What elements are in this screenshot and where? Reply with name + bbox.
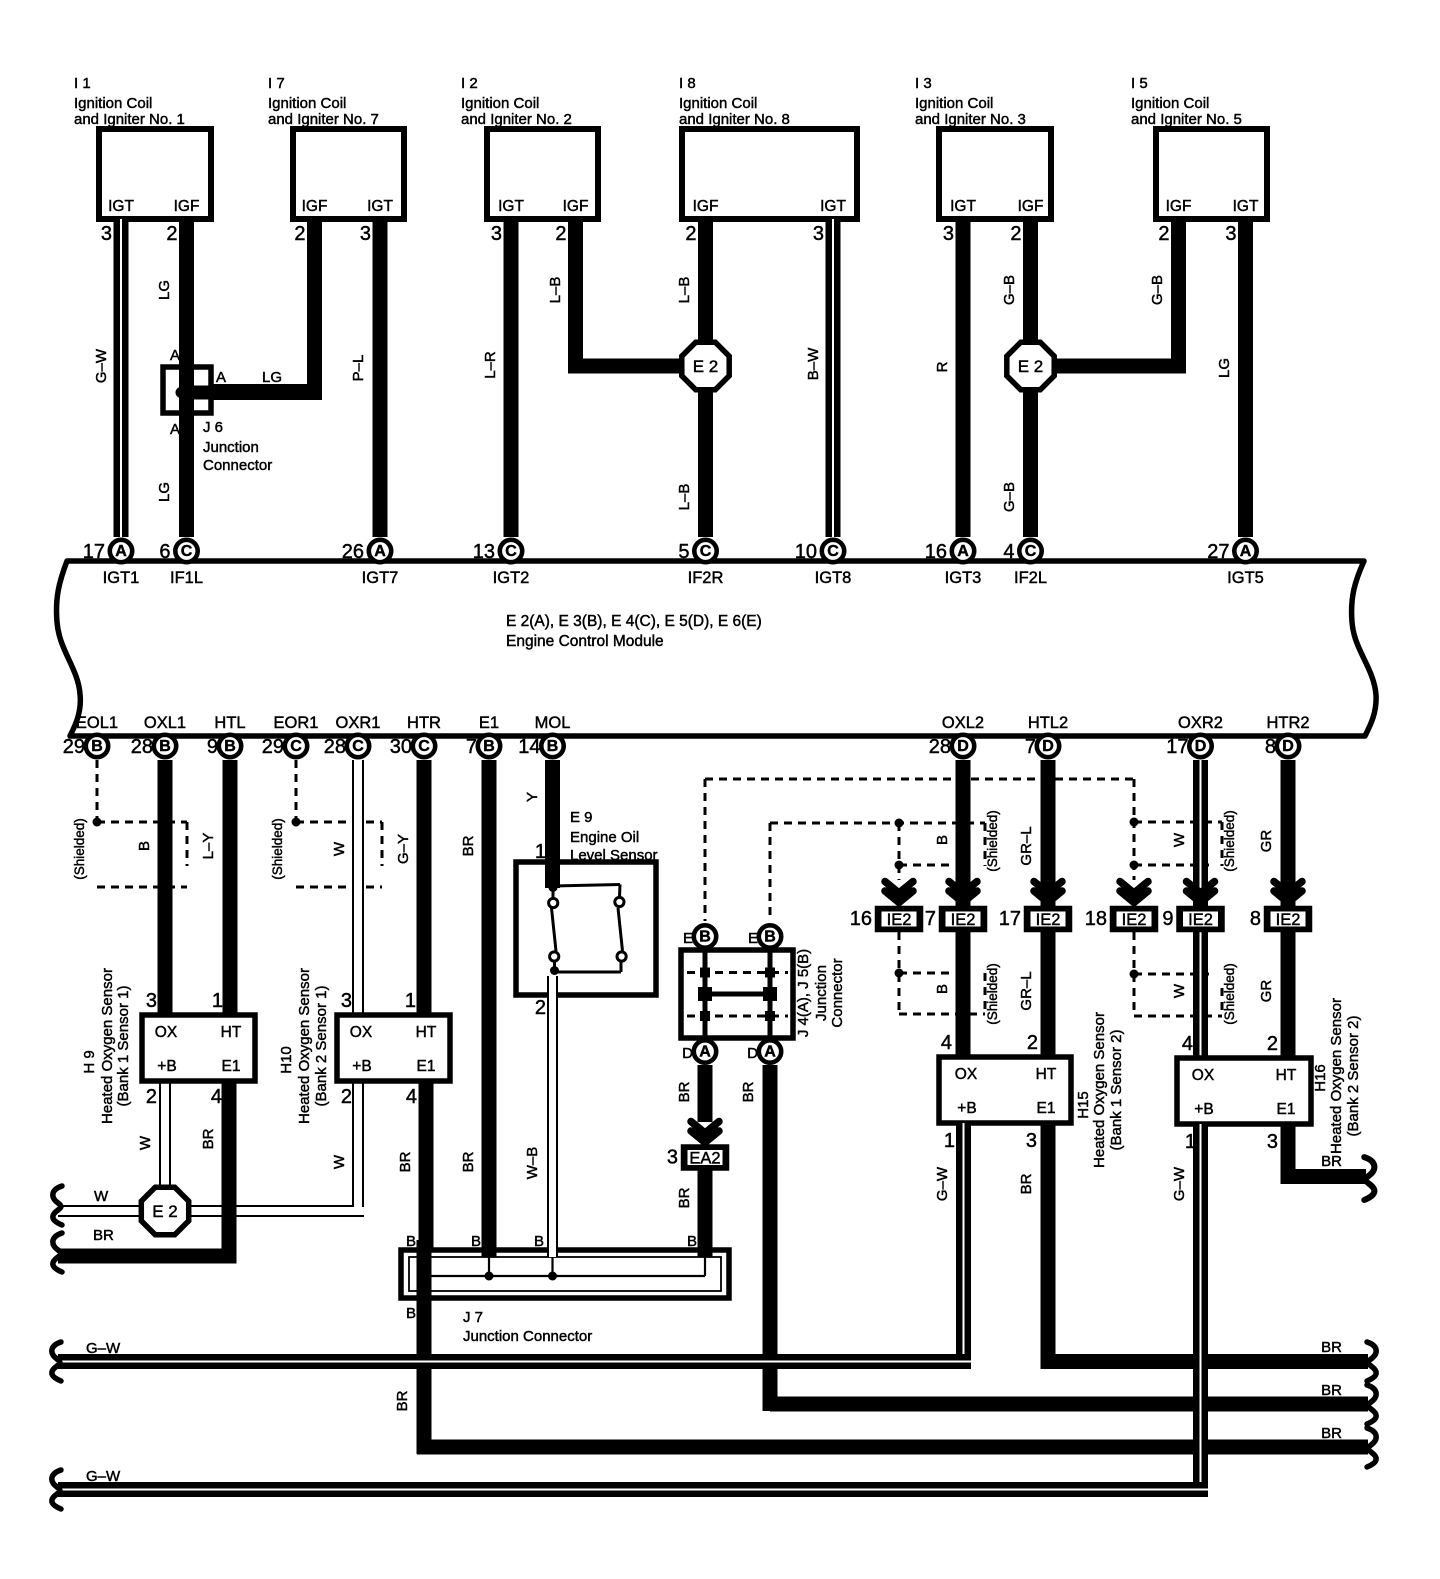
svg-text:I 7: I 7 bbox=[268, 75, 285, 92]
svg-text:IGF: IGF bbox=[693, 198, 719, 215]
svg-text:BR: BR bbox=[397, 1151, 414, 1172]
wire IGT1 G-W (I1 pin3 to ECM 17A) bbox=[93, 219, 129, 537]
ignition coil I7 (No. 7) bbox=[268, 75, 404, 245]
svg-text:2: 2 bbox=[294, 223, 305, 245]
svg-text:A: A bbox=[115, 543, 127, 560]
wire H16 +B G-W down to bottom harness bbox=[1171, 1124, 1208, 1497]
svg-text:G–W: G–W bbox=[86, 1340, 121, 1357]
svg-text:G–B: G–B bbox=[1001, 482, 1018, 512]
wire IGT5 LG (I5 pin3 to ECM 27A) bbox=[1216, 219, 1253, 537]
svg-text:LG: LG bbox=[1216, 358, 1233, 378]
svg-text:29: 29 bbox=[63, 736, 85, 758]
svg-text:IGT: IGT bbox=[950, 198, 976, 215]
svg-text:IF2L: IF2L bbox=[1014, 569, 1047, 587]
svg-text:MOL: MOL bbox=[535, 714, 571, 732]
svg-text:8: 8 bbox=[1265, 736, 1276, 758]
svg-text:3: 3 bbox=[491, 223, 502, 245]
svg-text:(Shielded): (Shielded) bbox=[985, 963, 1000, 1025]
svg-text:GR: GR bbox=[1258, 980, 1275, 1003]
wire W ground link through E2 octagon bbox=[58, 1081, 364, 1217]
svg-text:A: A bbox=[170, 421, 180, 438]
svg-text:3: 3 bbox=[1026, 1130, 1037, 1152]
wire HTR G-Y (ECM 30C to H10 HT) bbox=[395, 760, 432, 1016]
heated oxygen sensor H15 (Bank 1 Sensor 2) bbox=[939, 1012, 1125, 1168]
svg-text:B: B bbox=[159, 738, 171, 755]
svg-text:1: 1 bbox=[944, 1130, 955, 1152]
svg-text:Engine Oil: Engine Oil bbox=[570, 829, 639, 846]
junction connector J6 bbox=[163, 347, 272, 474]
svg-text:B: B bbox=[471, 1233, 481, 1250]
engine oil level sensor E9 bbox=[516, 809, 658, 995]
svg-text:(Shielded): (Shielded) bbox=[1222, 810, 1237, 872]
svg-text:3: 3 bbox=[341, 990, 352, 1012]
svg-text:H 9: H 9 bbox=[81, 1050, 98, 1073]
svg-text:18: 18 bbox=[1085, 908, 1107, 930]
svg-text:B: B bbox=[91, 738, 103, 755]
svg-text:Ignition Coil: Ignition Coil bbox=[1131, 95, 1209, 112]
svg-text:D: D bbox=[1042, 738, 1054, 755]
svg-text:D: D bbox=[1195, 738, 1207, 755]
svg-text:IE2: IE2 bbox=[1188, 911, 1213, 929]
svg-text:BR: BR bbox=[200, 1128, 217, 1149]
svg-text:2: 2 bbox=[166, 223, 177, 245]
ECM pin 6(C) IF1L bbox=[159, 540, 203, 587]
svg-text:IGT: IGT bbox=[498, 198, 524, 215]
svg-text:B: B bbox=[547, 738, 559, 755]
svg-text:B: B bbox=[934, 835, 951, 845]
shield box below 16 IE2 (Shielded) bbox=[895, 932, 1001, 1025]
svg-text:(Bank 2 Sensor 2): (Bank 2 Sensor 2) bbox=[1345, 1016, 1362, 1137]
svg-text:W: W bbox=[1171, 832, 1188, 847]
svg-text:HTR: HTR bbox=[407, 714, 441, 732]
ground point E2 (bottom) bbox=[141, 1187, 188, 1234]
wire H15 +B G-W to left harness bbox=[934, 1123, 971, 1369]
svg-text:E 9: E 9 bbox=[570, 809, 593, 826]
wire HTR BR through J7 to bottom harness bbox=[394, 1233, 1368, 1455]
svg-text:B: B bbox=[136, 841, 153, 851]
svg-text:26: 26 bbox=[342, 541, 364, 563]
svg-text:L–R: L–R bbox=[482, 351, 499, 379]
wire E9 pin2 W-B to J7 bbox=[524, 976, 558, 1257]
ECM pin 17(A) IGT1 bbox=[83, 540, 140, 587]
ECM pin 29(C) EOR1 bbox=[262, 714, 319, 758]
svg-text:I 1: I 1 bbox=[74, 75, 91, 92]
svg-text:A: A bbox=[764, 1044, 776, 1061]
svg-text:J 6: J 6 bbox=[203, 419, 223, 436]
svg-text:C: C bbox=[290, 738, 302, 755]
cut-wire brace BR left bbox=[53, 1233, 62, 1272]
ground connector IE2 pin 16 bbox=[850, 908, 921, 930]
heated oxygen sensor H10 (Bank 2 Sensor 1) bbox=[278, 968, 450, 1124]
svg-text:3: 3 bbox=[1225, 223, 1236, 245]
svg-text:2: 2 bbox=[535, 997, 546, 1019]
svg-text:OX: OX bbox=[1192, 1067, 1215, 1084]
svg-text:IF1L: IF1L bbox=[170, 569, 203, 587]
ground point E2 (right) bbox=[1007, 342, 1054, 389]
svg-text:2: 2 bbox=[685, 223, 696, 245]
svg-text:HT: HT bbox=[1036, 1066, 1057, 1083]
svg-text:GR: GR bbox=[1258, 830, 1275, 853]
svg-text:Ignition Coil: Ignition Coil bbox=[74, 95, 152, 112]
svg-text:EOL1: EOL1 bbox=[76, 714, 118, 732]
svg-text:IGT8: IGT8 bbox=[815, 569, 852, 587]
svg-text:BR: BR bbox=[1321, 1425, 1342, 1442]
svg-text:G–Y: G–Y bbox=[395, 834, 412, 864]
wire G-W harness line (left, upper) bbox=[58, 1340, 971, 1369]
svg-text:BR: BR bbox=[460, 1151, 477, 1172]
wire HTR2 GR (ECM 8D to H16 HT) bbox=[1258, 760, 1296, 1058]
svg-text:(Bank 1 Sensor 2): (Bank 1 Sensor 2) bbox=[1108, 1030, 1125, 1151]
svg-text:BR: BR bbox=[93, 1227, 114, 1244]
svg-text:IE2: IE2 bbox=[951, 911, 976, 929]
svg-text:Ignition Coil: Ignition Coil bbox=[679, 95, 757, 112]
wire IF2R L-B (E2 node to ECM 5C) bbox=[676, 366, 713, 537]
svg-text:3: 3 bbox=[101, 223, 112, 245]
svg-text:HT: HT bbox=[416, 1024, 437, 1041]
svg-text:and Igniter No. 5: and Igniter No. 5 bbox=[1131, 111, 1242, 128]
svg-text:17: 17 bbox=[83, 541, 105, 563]
wire IGT2 L-R (I2 pin3 to ECM 13C) bbox=[482, 219, 519, 537]
svg-text:OXL2: OXL2 bbox=[942, 714, 984, 732]
svg-text:A: A bbox=[216, 369, 226, 386]
svg-text:4: 4 bbox=[406, 1086, 417, 1108]
svg-text:IF2R: IF2R bbox=[688, 569, 724, 587]
wire OXL2 B (ECM 28D to H15 OX) bbox=[934, 760, 971, 1057]
wire E1 BR into J7 bbox=[471, 1233, 497, 1281]
wire I2 IGF L-B to ground E2 bbox=[547, 219, 706, 374]
wire OXR1 W (ECM 28C to H10 OX) bbox=[331, 760, 364, 1016]
svg-text:+B: +B bbox=[957, 1100, 976, 1117]
svg-text:BR: BR bbox=[676, 1187, 693, 1208]
svg-text:Connector: Connector bbox=[203, 457, 272, 474]
ECM pin 28(D) OXL2 bbox=[929, 714, 984, 758]
ECM pin 29(B) EOL1 bbox=[63, 714, 118, 758]
junction connector J7 bbox=[401, 1250, 729, 1298]
svg-text:8: 8 bbox=[1250, 908, 1261, 930]
svg-text:Engine Control Module: Engine Control Module bbox=[506, 633, 664, 650]
svg-text:(Shielded): (Shielded) bbox=[270, 818, 285, 880]
svg-text:3: 3 bbox=[1267, 1131, 1278, 1153]
svg-text:(Bank 1 Sensor 1): (Bank 1 Sensor 1) bbox=[115, 986, 132, 1107]
svg-text:IGT: IGT bbox=[367, 198, 393, 215]
wire I3 IGF G-B to ground E2 bbox=[1001, 219, 1038, 366]
svg-text:4: 4 bbox=[1003, 541, 1014, 563]
ECM pin 5(C) IF2R bbox=[678, 540, 723, 587]
svg-text:Connector: Connector bbox=[829, 958, 846, 1027]
svg-text:A: A bbox=[957, 543, 969, 560]
svg-text:Junction: Junction bbox=[203, 439, 259, 456]
svg-text:B: B bbox=[406, 1233, 416, 1250]
svg-text:A: A bbox=[374, 543, 386, 560]
svg-text:LG: LG bbox=[262, 369, 282, 386]
wire H10 E1 BR to J7 bbox=[397, 1081, 434, 1257]
svg-text:Ignition Coil: Ignition Coil bbox=[268, 95, 346, 112]
svg-text:H10: H10 bbox=[278, 1046, 295, 1074]
svg-text:Heated Oxygen Sensor: Heated Oxygen Sensor bbox=[296, 968, 313, 1124]
wire E1 BR (ECM 7B to J7) bbox=[460, 760, 497, 1257]
ground connector IE2 pin 18 bbox=[1085, 908, 1156, 930]
svg-text:17: 17 bbox=[999, 908, 1021, 930]
shield box below 18 IE2 (Shielded) bbox=[1130, 932, 1238, 1025]
wire OXR2 W (ECM 17D to H16 OX) bbox=[1171, 760, 1208, 1058]
svg-text:E 2: E 2 bbox=[1018, 357, 1044, 376]
svg-text:E 2: E 2 bbox=[693, 357, 719, 376]
svg-text:and Igniter No. 1: and Igniter No. 1 bbox=[74, 111, 185, 128]
svg-text:9: 9 bbox=[207, 736, 218, 758]
wire OXL1 B (ECM 28B to H9 OX) bbox=[136, 760, 173, 1016]
svg-text:Ignition Coil: Ignition Coil bbox=[461, 95, 539, 112]
svg-text:J 4(A), J 5(B): J 4(A), J 5(B) bbox=[795, 949, 812, 1037]
svg-text:Heated Oxygen Sensor: Heated Oxygen Sensor bbox=[1091, 1012, 1108, 1168]
ignition coil I2 (No. 2) bbox=[461, 75, 598, 245]
svg-text:BR: BR bbox=[1321, 1339, 1342, 1356]
svg-text:B: B bbox=[764, 929, 776, 946]
arrow into IE2 (8) bbox=[1274, 882, 1302, 903]
svg-text:17: 17 bbox=[1166, 736, 1188, 758]
svg-text:OXR1: OXR1 bbox=[336, 714, 381, 732]
svg-text:1: 1 bbox=[405, 990, 416, 1012]
svg-text:Ignition Coil: Ignition Coil bbox=[915, 95, 993, 112]
svg-text:3: 3 bbox=[813, 223, 824, 245]
terminal D(A) left on J4/J5 bbox=[682, 1040, 716, 1062]
ignition coil I5 (No. 5) bbox=[1131, 75, 1267, 245]
svg-text:B: B bbox=[934, 984, 951, 994]
svg-text:D: D bbox=[957, 738, 969, 755]
svg-text:2: 2 bbox=[1010, 223, 1021, 245]
svg-text:B: B bbox=[406, 1305, 416, 1322]
svg-text:I 8: I 8 bbox=[679, 75, 696, 92]
svg-text:+B: +B bbox=[352, 1058, 371, 1075]
svg-text:H15: H15 bbox=[1075, 1091, 1092, 1119]
svg-text:2: 2 bbox=[1267, 1033, 1278, 1055]
ECM pin 30(C) HTR bbox=[390, 714, 441, 758]
svg-text:IGT2: IGT2 bbox=[493, 569, 530, 587]
svg-text:W: W bbox=[331, 1154, 348, 1169]
wire H15 E1 BR to right harness bbox=[1018, 1123, 1368, 1369]
wire W-B into J7 bbox=[534, 1233, 558, 1281]
cut-wire brace BR right (line 2) bbox=[1367, 1385, 1376, 1424]
svg-text:IE2: IE2 bbox=[887, 911, 912, 929]
svg-text:2: 2 bbox=[1158, 223, 1169, 245]
ground connector IE2 pin 7 bbox=[925, 908, 985, 930]
ECM pin 4(C) IF2L bbox=[1003, 540, 1047, 587]
terminal E(B) left on J4/J5 bbox=[683, 925, 716, 947]
svg-text:7: 7 bbox=[1025, 736, 1036, 758]
svg-text:OX: OX bbox=[955, 1066, 978, 1083]
svg-text:W: W bbox=[94, 1188, 109, 1205]
svg-text:A: A bbox=[1240, 543, 1252, 560]
ECM pin 9(B) HTL bbox=[207, 714, 246, 758]
svg-text:HT: HT bbox=[1276, 1067, 1297, 1084]
svg-text:7: 7 bbox=[466, 736, 477, 758]
svg-text:30: 30 bbox=[390, 736, 412, 758]
svg-text:16: 16 bbox=[850, 908, 872, 930]
ignition coil I8 (No. 8) bbox=[679, 75, 857, 245]
dashed shield bus line 2 (J5 E(B) to 16 IE2 and OXL2 shield) bbox=[770, 819, 985, 922]
svg-text:(Shielded): (Shielded) bbox=[72, 818, 87, 880]
svg-text:EA2: EA2 bbox=[689, 1150, 720, 1168]
svg-text:+B: +B bbox=[157, 1058, 176, 1075]
svg-text:Heated Oxygen Sensor: Heated Oxygen Sensor bbox=[99, 968, 116, 1124]
svg-text:C: C bbox=[1025, 543, 1037, 560]
svg-text:29: 29 bbox=[262, 736, 284, 758]
svg-text:9: 9 bbox=[1162, 908, 1173, 930]
svg-text:B: B bbox=[699, 929, 711, 946]
svg-text:7: 7 bbox=[925, 908, 936, 930]
svg-text:BR: BR bbox=[394, 1390, 411, 1411]
svg-text:+B: +B bbox=[1194, 1101, 1213, 1118]
wire IF2L G-B (E2 node to ECM 4C) bbox=[1001, 366, 1038, 537]
svg-text:GR–L: GR–L bbox=[1018, 971, 1035, 1010]
wire HTL2 GR-L (ECM 7D to H15 HT) bbox=[1018, 760, 1056, 1057]
wire EA2 BR into J7 bbox=[687, 1233, 713, 1276]
svg-text:BR: BR bbox=[676, 1081, 693, 1102]
svg-text:E: E bbox=[683, 930, 693, 947]
svg-text:GR–L: GR–L bbox=[1018, 826, 1035, 865]
svg-text:IGF: IGF bbox=[563, 198, 589, 215]
ECM pin 26(A) IGT7 bbox=[342, 540, 399, 587]
shield box around OXL1 wire (Shielded) bbox=[72, 818, 187, 887]
svg-text:HTL: HTL bbox=[214, 714, 245, 732]
svg-text:W–B: W–B bbox=[524, 1147, 541, 1180]
shield box around OXR1 wire (Shielded) bbox=[270, 818, 382, 887]
svg-text:E1: E1 bbox=[1037, 1100, 1056, 1117]
svg-text:4: 4 bbox=[211, 1086, 222, 1108]
wire IGT7 P-L (I7 pin3 to ECM 26A) bbox=[350, 219, 388, 537]
svg-text:E1: E1 bbox=[1277, 1101, 1296, 1118]
svg-text:A: A bbox=[699, 1044, 711, 1061]
svg-text:27: 27 bbox=[1207, 541, 1229, 563]
svg-text:IGF: IGF bbox=[302, 198, 328, 215]
svg-text:IE2: IE2 bbox=[1276, 911, 1301, 929]
ECM pin 14(B) MOL bbox=[518, 714, 570, 758]
ECM pin 16(A) IGT3 bbox=[925, 540, 982, 587]
ground point E2 (left) bbox=[682, 342, 729, 389]
ECM pin 10(C) IGT8 bbox=[795, 540, 852, 587]
svg-text:6: 6 bbox=[159, 541, 170, 563]
svg-text:B: B bbox=[483, 738, 495, 755]
cut-wire brace W left bbox=[53, 1186, 62, 1225]
svg-text:BR: BR bbox=[1321, 1382, 1342, 1399]
svg-text:OX: OX bbox=[350, 1024, 373, 1041]
svg-text:3: 3 bbox=[667, 1147, 678, 1169]
cut-wire brace BR right (line 1) bbox=[1367, 1342, 1376, 1381]
svg-text:E1: E1 bbox=[479, 714, 499, 732]
svg-text:G–W: G–W bbox=[934, 1166, 951, 1201]
heated oxygen sensor H9 (Bank 1 Sensor 1) bbox=[81, 968, 255, 1124]
svg-text:C: C bbox=[181, 543, 193, 560]
ground connector IE2 pin 8 bbox=[1250, 908, 1310, 930]
svg-text:BR: BR bbox=[1018, 1173, 1035, 1194]
shield drain 16 IE2 dashed with junction dots bbox=[895, 810, 1001, 880]
svg-text:HT: HT bbox=[221, 1024, 242, 1041]
svg-text:HTL2: HTL2 bbox=[1028, 714, 1068, 732]
svg-text:IGT: IGT bbox=[820, 198, 846, 215]
svg-text:I 2: I 2 bbox=[461, 75, 478, 92]
svg-text:B: B bbox=[534, 1233, 544, 1250]
svg-text:13: 13 bbox=[473, 541, 495, 563]
svg-text:and Igniter No. 8: and Igniter No. 8 bbox=[679, 111, 790, 128]
svg-text:W: W bbox=[331, 841, 348, 856]
svg-text:OX: OX bbox=[155, 1024, 178, 1041]
svg-text:IGT: IGT bbox=[108, 198, 134, 215]
svg-text:L–B: L–B bbox=[676, 277, 693, 304]
J7 internal bus line bbox=[420, 1272, 706, 1281]
arrow into IE2 (18) bbox=[1120, 882, 1148, 903]
wire J4 D(A) BR to EA2 ground bbox=[676, 1065, 713, 1122]
svg-text:(Bank 2 Sensor 1): (Bank 2 Sensor 1) bbox=[313, 986, 330, 1107]
svg-text:Level Sensor: Level Sensor bbox=[570, 847, 658, 864]
svg-text:IGT: IGT bbox=[1233, 198, 1259, 215]
wire HTL L-Y (ECM 9B to H9 HT) bbox=[200, 760, 238, 1016]
svg-text:C: C bbox=[700, 543, 712, 560]
svg-text:2: 2 bbox=[1027, 1032, 1038, 1054]
ECM pin 28(B) OXL1 bbox=[131, 714, 186, 758]
svg-text:G–B: G–B bbox=[1149, 275, 1166, 305]
svg-text:3: 3 bbox=[146, 990, 157, 1012]
svg-text:4: 4 bbox=[941, 1032, 952, 1054]
svg-text:IGF: IGF bbox=[1018, 198, 1044, 215]
svg-text:(Shielded): (Shielded) bbox=[985, 810, 1000, 872]
svg-text:E1: E1 bbox=[417, 1058, 436, 1075]
svg-text:10: 10 bbox=[795, 541, 817, 563]
svg-text:D: D bbox=[747, 1045, 758, 1062]
svg-text:and Igniter No. 3: and Igniter No. 3 bbox=[915, 111, 1026, 128]
svg-text:I 5: I 5 bbox=[1131, 75, 1148, 92]
svg-text:5: 5 bbox=[678, 541, 689, 563]
svg-text:OXR2: OXR2 bbox=[1178, 714, 1223, 732]
svg-text:Y: Y bbox=[524, 792, 541, 802]
wire IGT8 B-W (I8 pin3 to ECM 10C) bbox=[805, 219, 841, 537]
arrow into IE2 (16) bbox=[885, 882, 913, 903]
svg-text:28: 28 bbox=[131, 736, 153, 758]
svg-text:BR: BR bbox=[1321, 1153, 1342, 1170]
svg-text:IGT5: IGT5 bbox=[1227, 569, 1264, 587]
svg-text:W: W bbox=[137, 1135, 154, 1150]
shield drain EOL1 dashed bbox=[93, 760, 102, 827]
svg-text:E: E bbox=[748, 930, 758, 947]
ECM pin 27(A) IGT5 bbox=[1207, 540, 1264, 587]
svg-text:16: 16 bbox=[925, 541, 947, 563]
svg-text:4: 4 bbox=[1182, 1033, 1193, 1055]
junction connector J4(A), J5(B) bbox=[681, 949, 846, 1038]
svg-text:28: 28 bbox=[324, 736, 346, 758]
svg-text:IGF: IGF bbox=[1166, 198, 1192, 215]
wire G-W harness line (bottom) bbox=[58, 1468, 1208, 1497]
svg-text:Junction: Junction bbox=[813, 965, 830, 1021]
cut-wire brace G-W left bottom bbox=[52, 1470, 61, 1509]
ECM pin 17(D) OXR2 bbox=[1166, 714, 1223, 758]
svg-text:G–W: G–W bbox=[1171, 1166, 1188, 1201]
cut-wire brace BR right (line 3) bbox=[1367, 1428, 1376, 1467]
wire MOL Y (ECM 14B to E9 pin1) bbox=[524, 760, 560, 888]
svg-text:2: 2 bbox=[555, 223, 566, 245]
shield drain 18 IE2 dashed with junction dots bbox=[1130, 810, 1238, 880]
svg-text:A: A bbox=[170, 347, 180, 364]
svg-text:IGT1: IGT1 bbox=[103, 569, 140, 587]
svg-text:3: 3 bbox=[943, 223, 954, 245]
terminal E(B) right on J4/J5 bbox=[748, 925, 781, 947]
svg-text:and Igniter No. 7: and Igniter No. 7 bbox=[268, 111, 379, 128]
svg-text:Junction Connector: Junction Connector bbox=[463, 1328, 592, 1345]
svg-text:1: 1 bbox=[212, 990, 223, 1012]
svg-text:BR: BR bbox=[740, 1081, 757, 1102]
svg-text:C: C bbox=[418, 738, 430, 755]
svg-text:LG: LG bbox=[156, 482, 173, 502]
svg-text:P–L: P–L bbox=[350, 355, 367, 382]
ground connector IE2 pin 17 bbox=[999, 908, 1070, 930]
svg-text:IE2: IE2 bbox=[1036, 911, 1061, 929]
